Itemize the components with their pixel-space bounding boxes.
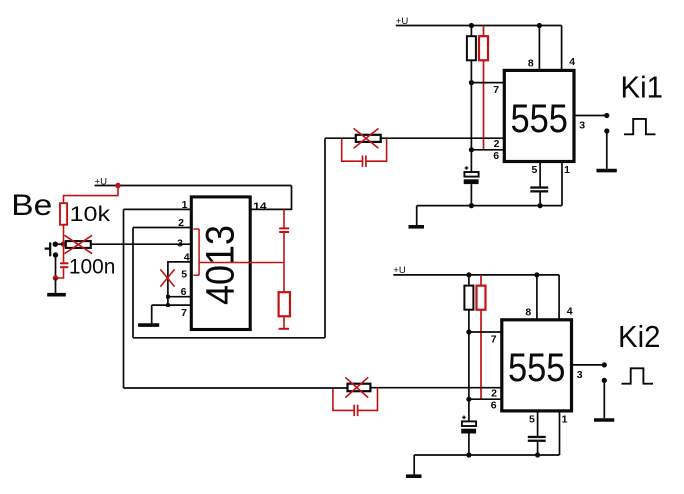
capacitor electrolytic plus sign (555 #2) bbox=[462, 416, 466, 420]
svg-text:100n: 100n bbox=[69, 256, 116, 279]
ground symbol input bbox=[47, 293, 66, 297]
wire +U supply rail (555 #2) bbox=[393, 274, 559, 276]
capacitor C1 100n plate B bbox=[60, 266, 68, 268]
svg-text:6: 6 bbox=[493, 150, 499, 162]
wire red resistor to pin6 (555 #1) bbox=[483, 60, 485, 150]
node button contact upper bbox=[53, 242, 58, 247]
wire 555#2 pin2 to trimmer2 bbox=[370, 387, 501, 389]
wire output lower terminal stem (555 #1) bbox=[606, 134, 608, 169]
node pin7 junction bbox=[166, 303, 170, 307]
svg-text:6: 6 bbox=[491, 399, 497, 411]
resistor timing red (555 #1) bbox=[479, 36, 488, 60]
svg-text:1: 1 bbox=[562, 413, 568, 425]
waveform pulse symbol (555 #1) bbox=[624, 119, 656, 134]
node output terminal lower (555 #1) bbox=[604, 128, 609, 133]
wire pin 3 output (555 #2) bbox=[572, 364, 605, 366]
wire output lower terminal stem (555 #2) bbox=[603, 383, 605, 418]
node pin5cap/ground junction (555 #1) bbox=[538, 203, 543, 208]
svg-text:3: 3 bbox=[177, 238, 183, 250]
wire pin 6 (555 #2) bbox=[469, 398, 502, 400]
wire pin 5 (555 #2) bbox=[537, 411, 539, 436]
node pin6 junction (555 #1) bbox=[469, 147, 474, 152]
wire +U rail (4013) bbox=[95, 185, 292, 187]
svg-text:Ki2: Ki2 bbox=[618, 319, 661, 354]
wire red strap pin5 stub bbox=[193, 274, 199, 276]
wire pin6 junction down to pin7 bbox=[167, 297, 169, 305]
wire red bypass right (trimmer #1) bbox=[366, 138, 387, 161]
wire rail to resistor (555 #1) bbox=[470, 26, 472, 37]
svg-text:Be: Be bbox=[11, 189, 52, 222]
wire ground rail (555 #1) bbox=[417, 205, 562, 207]
svg-text:1: 1 bbox=[564, 164, 570, 176]
node button contact lower bbox=[53, 252, 58, 257]
wire 4013 pin 6 bbox=[168, 296, 191, 298]
node supply/resistor junction (555 #2) bbox=[466, 272, 471, 277]
flip-flop IC 4013 body bbox=[191, 197, 250, 330]
resistor timing black (555 #2) bbox=[464, 286, 473, 310]
wire pin14 node to red cap bbox=[283, 209, 285, 228]
wire rail to red resistor (555 #1) bbox=[483, 26, 485, 37]
wire pin1 down left side bbox=[123, 209, 125, 388]
cross-out X on trimmer #2 bbox=[345, 377, 368, 397]
svg-text:555: 555 bbox=[508, 346, 566, 390]
wire red resistor to pin6 (555 #2) bbox=[480, 310, 482, 400]
capacitor pin5 control plate B (555 #2) bbox=[528, 440, 546, 442]
svg-text:4013: 4013 bbox=[199, 225, 243, 305]
wire pin 1 to ground rail (555 #1) bbox=[561, 162, 563, 206]
ground symbol (555 #1) bbox=[409, 225, 425, 229]
wire pin 6 (555 #1) bbox=[471, 149, 504, 151]
svg-text:5: 5 bbox=[531, 164, 537, 176]
wire series resistor to 4013 pin3 bbox=[91, 243, 192, 245]
wire pin 3 output (555 #1) bbox=[574, 115, 607, 117]
wire red bypass left (trimmer #2) bbox=[333, 387, 354, 410]
switch pushbutton Be actuator bbox=[45, 242, 51, 256]
svg-text:10k: 10k bbox=[70, 203, 111, 226]
svg-text:2: 2 bbox=[494, 138, 500, 150]
wire elco to ground rail (555 #1) bbox=[470, 184, 472, 206]
wire red bypass left (trimmer #1) bbox=[342, 138, 363, 161]
wire 4013 pin 1 bbox=[124, 208, 192, 210]
wire pin14 to +U rail bbox=[250, 186, 291, 210]
wire button lower to ground node bbox=[55, 255, 57, 278]
wire pin 8 to rail (555 #1) bbox=[538, 26, 540, 71]
node pin6 junction (555 #2) bbox=[466, 397, 471, 402]
wire red bypass right (trimmer #2) bbox=[358, 387, 378, 410]
capacitor pin5 control plate B (555 #1) bbox=[530, 190, 548, 192]
wire 4013 pin 4 bbox=[168, 262, 191, 297]
capacitor red timing plate B bbox=[279, 231, 289, 233]
svg-text:3: 3 bbox=[579, 119, 585, 131]
ground output terminal bar (555 #1) bbox=[597, 169, 617, 173]
svg-text:Ki1: Ki1 bbox=[621, 70, 664, 105]
capacitor C1 100n plate A bbox=[60, 262, 68, 264]
wire resistor to pin7/cap chain (555 #1) bbox=[470, 60, 472, 172]
wire pin 8 to rail (555 #2) bbox=[536, 275, 538, 320]
capacitor electrolytic bottom plate (555 #2) bbox=[461, 429, 476, 434]
capacitor pin5 control plate A (555 #1) bbox=[530, 186, 548, 188]
op-amp timer IC 555 #1 body bbox=[504, 70, 574, 161]
wire red timing tap across IC bbox=[199, 262, 284, 264]
resistor red timing body bbox=[279, 292, 290, 316]
wire red cap to junction bbox=[283, 232, 285, 292]
resistor crossed-out series body bbox=[66, 241, 91, 248]
trimmer crossed resistor body #2 bbox=[348, 384, 371, 392]
wire 4013 pin 2 bbox=[133, 227, 191, 229]
wire pin 1 to ground rail (555 #2) bbox=[559, 411, 561, 455]
svg-text:5: 5 bbox=[181, 269, 187, 281]
cross-out X cut mark (pin4 wire) bbox=[160, 269, 174, 286]
wire rail to resistor (555 #2) bbox=[468, 275, 470, 286]
wire elco to ground rail (555 #2) bbox=[468, 434, 470, 456]
node pin5cap/ground junction (555 #2) bbox=[535, 452, 540, 457]
svg-text:2: 2 bbox=[491, 387, 497, 399]
node pin4/pin6 junction bbox=[166, 295, 170, 299]
wire red strap pin2-side stub bbox=[193, 228, 199, 230]
node supply/pin8 junction (555 #1) bbox=[537, 23, 542, 28]
cross-out X on trimmer #1 bbox=[354, 128, 379, 148]
wire to input ground bbox=[55, 278, 57, 293]
capacitor electrolytic bottom plate (555 #1) bbox=[464, 179, 479, 184]
capacitor red bypass plate B (trimmer #2) bbox=[357, 405, 359, 416]
wire trigger node to 100n cap bbox=[63, 244, 65, 262]
node output terminal upper (555 #1) bbox=[604, 113, 609, 118]
svg-text:4: 4 bbox=[567, 306, 573, 318]
svg-text:7: 7 bbox=[491, 334, 497, 346]
svg-text:4: 4 bbox=[569, 56, 575, 68]
wire pin5 cap to ground rail (555 #1) bbox=[539, 193, 541, 206]
svg-text:7: 7 bbox=[181, 307, 187, 319]
node output terminal upper (555 #2) bbox=[602, 362, 607, 367]
node +U tap (4013) bbox=[115, 183, 121, 189]
wire pin5 cap to ground rail (555 #2) bbox=[537, 442, 539, 455]
node pin7 junction (555 #2) bbox=[466, 329, 471, 334]
wire pin 4 to rail (555 #2) bbox=[558, 275, 560, 320]
wire +U supply rail (555 #1) bbox=[396, 25, 562, 27]
wire bottom run to trimmer2 bbox=[124, 387, 348, 389]
node pin7 junction (555 #1) bbox=[469, 80, 474, 85]
svg-text:5: 5 bbox=[529, 413, 535, 425]
wire 10k to trigger node bbox=[63, 225, 65, 245]
waveform pulse symbol (555 #2) bbox=[622, 368, 654, 383]
capacitor pin5 control plate A (555 #2) bbox=[528, 436, 546, 438]
cross-out X on series resistor bbox=[65, 235, 93, 253]
node elco/ground junction (555 #2) bbox=[466, 452, 471, 457]
wire button to trigger node bbox=[55, 243, 63, 245]
wire red strap vertical (pins 2-5) bbox=[198, 229, 200, 275]
wire pin 4 to rail (555 #1) bbox=[561, 26, 563, 71]
svg-text:8: 8 bbox=[525, 307, 531, 319]
wire 4013 pin 7 bbox=[152, 304, 192, 306]
wire pin2 down inner left bbox=[132, 228, 134, 338]
wire pin 7 (555 #2) bbox=[469, 331, 502, 333]
node supply/resistor junction (555 #1) bbox=[469, 23, 474, 28]
svg-text:8: 8 bbox=[528, 57, 534, 69]
node output terminal lower (555 #2) bbox=[602, 378, 607, 383]
ground symbol (555 #2) bbox=[406, 474, 422, 478]
wire +U to 10k resistor bbox=[64, 186, 119, 204]
resistor timing black (555 #1) bbox=[467, 36, 476, 60]
op-amp timer IC 555 #2 body bbox=[502, 320, 572, 411]
svg-text:7: 7 bbox=[493, 84, 499, 96]
svg-text:3: 3 bbox=[577, 369, 583, 381]
svg-text:14: 14 bbox=[253, 200, 267, 212]
wire resistor to pin7/cap chain (555 #2) bbox=[468, 310, 470, 422]
capacitor electrolytic plus sign (555 #1) bbox=[465, 166, 469, 170]
wire 100n cap to ground node bbox=[56, 268, 64, 278]
node cap/button ground junction bbox=[53, 275, 59, 281]
node supply/pin8 junction (555 #2) bbox=[534, 272, 539, 277]
resistor R1 10k body bbox=[60, 203, 67, 225]
capacitor red bypass plate A (trimmer #2) bbox=[353, 405, 355, 416]
wire rail to red resistor (555 #2) bbox=[480, 275, 482, 286]
capacitor red bypass plate A (trimmer #1) bbox=[362, 156, 364, 167]
capacitor red timing plate A bbox=[279, 227, 289, 229]
ground symbol 4013 bbox=[138, 323, 159, 327]
wire red resistor bottom stub bbox=[283, 316, 285, 328]
wire 555#1 pin2 to trimmer bbox=[381, 137, 505, 139]
trimmer crossed resistor body #1 bbox=[356, 135, 381, 142]
wire inner right riser to trimmer1 bbox=[324, 138, 326, 338]
wire trimmer1 to corner bbox=[325, 137, 356, 139]
wire pin 7 (555 #1) bbox=[471, 82, 504, 84]
wire red stub end tick bbox=[279, 328, 290, 330]
ground output terminal bar (555 #2) bbox=[594, 418, 614, 422]
wire ground stem (555 #2) bbox=[413, 455, 415, 475]
capacitor electrolytic top plate (555 #2) bbox=[462, 421, 476, 426]
node trigger junction bbox=[61, 241, 67, 247]
wire ground stem (555 #1) bbox=[416, 206, 418, 226]
wire pin 5 (555 #1) bbox=[539, 162, 541, 187]
wire ground rail (555 #2) bbox=[414, 454, 559, 456]
node elco/ground junction (555 #1) bbox=[469, 203, 474, 208]
capacitor red bypass plate B (trimmer #1) bbox=[365, 156, 367, 167]
wire inner bottom run bbox=[133, 337, 325, 339]
capacitor electrolytic top plate (555 #1) bbox=[464, 172, 478, 177]
wire pin7 to ground bbox=[151, 305, 153, 323]
svg-text:555: 555 bbox=[510, 97, 568, 141]
resistor timing red (555 #2) bbox=[477, 286, 486, 310]
